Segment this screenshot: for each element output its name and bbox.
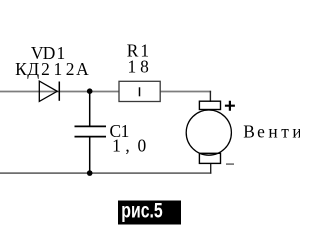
polarity minus sign xyxy=(226,163,234,165)
svg-text:Д: Д xyxy=(27,59,39,79)
figure caption box рис.5 xyxy=(118,201,181,225)
svg-text:0: 0 xyxy=(137,136,146,156)
svg-text:рис.5: рис.5 xyxy=(121,200,163,223)
node: junction dot on top rail xyxy=(87,88,93,94)
wire: C1 top lead from junction node down to top plate xyxy=(89,91,91,126)
svg-text:К: К xyxy=(15,59,27,79)
capacitor C1 bottom plate xyxy=(75,136,107,138)
motor M1 top brush terminal xyxy=(199,101,220,109)
svg-text:,: , xyxy=(125,136,129,156)
label VD1 xyxy=(31,43,65,63)
svg-text:т: т xyxy=(281,122,289,142)
svg-text:и: и xyxy=(292,122,300,142)
wire: top horizontal rail from left edge to R1 xyxy=(0,91,119,93)
svg-text:2: 2 xyxy=(41,59,50,79)
motor M1 body circle xyxy=(186,110,231,155)
wire: motor bottom lead down to bottom rail xyxy=(210,163,212,174)
svg-text:1: 1 xyxy=(112,136,121,156)
svg-text:1: 1 xyxy=(128,57,137,77)
label R1 xyxy=(127,41,149,61)
label C1 xyxy=(109,121,129,141)
wire: top horizontal rail from R1 to corner above motor xyxy=(160,91,211,93)
node: junction dot on bottom rail xyxy=(87,170,93,176)
svg-text:8: 8 xyxy=(140,57,149,77)
wire: C1 bottom lead from bottom plate to bottom rail xyxy=(89,137,91,173)
wire: bottom horizontal rail from left edge to motor - terminal xyxy=(0,172,211,174)
svg-text:А: А xyxy=(76,59,89,79)
label 1,0 xyxy=(112,136,146,156)
capacitor C1 top plate xyxy=(75,125,107,127)
label КД212А xyxy=(15,59,89,79)
resistor R1 power mark xyxy=(139,87,141,96)
polarity plus sign xyxy=(225,101,235,111)
label Вентилятор (clipped at right edge) xyxy=(243,122,313,142)
svg-text:В: В xyxy=(243,122,255,142)
svg-text:е: е xyxy=(257,122,265,142)
diode VD1 triangle xyxy=(39,81,57,101)
wire: vertical drop from corner into motor + terminal xyxy=(209,91,211,102)
resistor R1 body xyxy=(119,81,160,101)
label 18 xyxy=(128,57,150,77)
svg-text:2: 2 xyxy=(66,59,75,79)
svg-text:н: н xyxy=(268,122,277,142)
svg-text:1: 1 xyxy=(53,59,62,79)
motor M1 bottom brush terminal xyxy=(199,153,220,163)
diode VD1 cathode bar xyxy=(58,82,60,101)
